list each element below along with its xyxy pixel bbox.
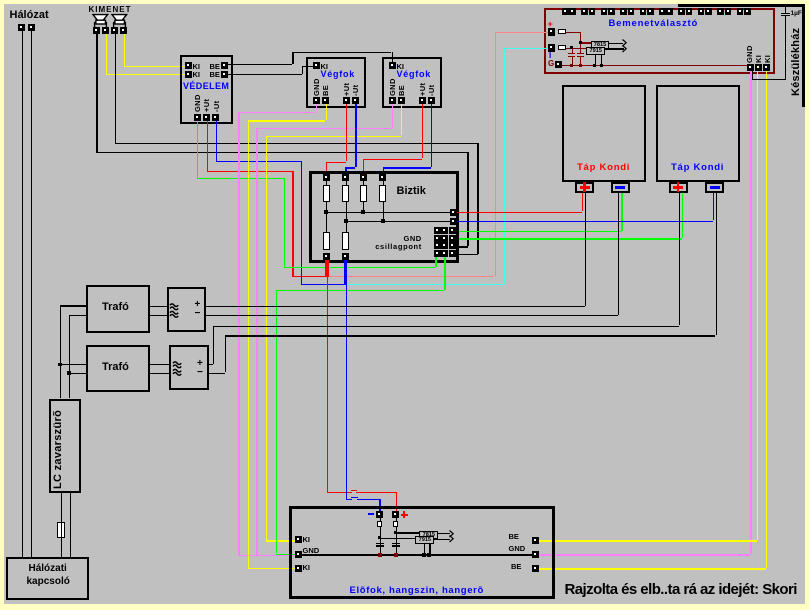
wire R+ to 7815 input maroon <box>566 32 581 33</box>
terminal VÉDELEM BE2 <box>221 71 228 78</box>
node Hálózat label <box>10 10 49 21</box>
wire branch trafo2 line1 <box>60 364 86 365</box>
wire Végfok2 +Ut red to fuse3 <box>422 104 423 158</box>
junction 7815 gnd preamp <box>422 553 426 557</box>
terminal Hálózat L <box>18 24 25 31</box>
junction bus+ col3 <box>361 210 365 214</box>
junction C+ gnd <box>394 553 398 557</box>
label GND vertical bottom right <box>746 45 754 63</box>
wire mains N down to switch <box>31 31 32 557</box>
terminal VÉDELEM KI2 <box>185 71 192 78</box>
label GND right <box>509 545 526 553</box>
noise filter LC zavarszürõ <box>49 399 81 493</box>
fuse mains <box>57 522 64 538</box>
wire 7815 output arrow <box>609 43 623 44</box>
wire rect2- to TK2- black <box>209 373 225 374</box>
terminal Biztik top 4 <box>379 174 386 181</box>
voltage regulator 7815 <box>591 41 610 49</box>
terminal SP1+ <box>102 27 109 34</box>
junction 7915 gnd <box>600 64 603 67</box>
amplifier module Végfok1 <box>306 57 366 108</box>
wire 7915 preamp output arrow <box>434 539 450 540</box>
wire rect2+ to TK2+ black <box>209 364 214 365</box>
wire Biztik + red to TK1+ <box>457 212 582 213</box>
terminal Elõfok BE1 right <box>532 537 539 544</box>
label Végfok2 <box>397 70 432 79</box>
wire Végfok2 BE yellow to Elõfok KI1 <box>401 104 402 135</box>
wire Végfok1 BE yellow to Elõfok KI2 <box>326 104 327 120</box>
capacitor bank Táp Kondi 2 <box>656 85 740 182</box>
wire 7915 output arrow <box>605 48 624 49</box>
voltage regulator 7815 preamp <box>419 531 438 538</box>
wire grid row4col2 green to Elõfok GND <box>444 257 445 290</box>
wire Végfok2 GND pink to Elõfok GND <box>392 104 393 128</box>
terminal Végfok2 -Ut <box>428 97 435 104</box>
wire + column <box>396 527 397 546</box>
wire trafo1 to rect1 <box>150 306 167 307</box>
transformer Trafó 1 <box>86 285 151 333</box>
capacitor 1uF chassis <box>785 7 786 13</box>
label + input <box>548 20 553 29</box>
wire Végfok2 -Ut blue to fuse4 <box>431 104 432 167</box>
label I input <box>549 52 551 60</box>
terminal SP2- <box>111 27 118 34</box>
wire Bemenet + from preamp salmon <box>495 32 548 33</box>
wire VÉDELEM BE1 to Végfok2 KI black <box>228 64 293 65</box>
wire trafo2 to rect2 <box>150 364 169 365</box>
label Végfok1 -Ut vertical <box>352 84 360 95</box>
fuse Elõfok + <box>396 518 397 521</box>
label G <box>548 60 554 68</box>
terminal input + <box>548 28 556 36</box>
junction 7915 gnd preamp <box>427 553 431 557</box>
mains switch Hálózati kapcsoló <box>6 557 89 601</box>
fuse box Biztik <box>309 171 459 263</box>
resistor R+ input <box>558 29 566 34</box>
wire regulator legs preamp <box>424 544 425 554</box>
junction 7815 in <box>394 531 397 534</box>
fuse F2 <box>346 181 347 185</box>
label - top <box>368 513 374 515</box>
label KI BE row1 <box>193 63 201 71</box>
wire VÉDELEM BE2 to Végfok1 KI black <box>228 74 302 75</box>
preamp Elõfok box <box>289 506 556 599</box>
wire - column <box>380 527 381 554</box>
wire SP1+ yellow to VÉDELEM KI row2 <box>106 34 107 74</box>
terminal Elõfok BE2 right <box>532 565 539 572</box>
junction C- gnd <box>378 553 382 557</box>
wire Bemenet KI2 yellow to Elõfok BE2 <box>766 71 767 569</box>
label GND csillagpont <box>404 235 422 243</box>
capacitor C2 input <box>577 53 584 54</box>
terminal Táp Kondi1 + <box>575 182 594 193</box>
wire LC to trafo line2 <box>69 315 70 399</box>
wire 7815 preamp output arrow <box>438 533 450 534</box>
fuse F1 <box>326 181 327 185</box>
terminal Bemenet KI2 <box>763 64 770 71</box>
terminal Végfok1 GND <box>313 97 320 104</box>
label Végfok2 KI <box>397 63 405 71</box>
wire +V down to Elõfok + <box>327 277 328 492</box>
wire col1 vertical <box>326 202 327 232</box>
terminal Elõfok KI1 left <box>295 536 302 543</box>
terminal Biztik top 3 <box>360 174 367 181</box>
terminal Biztik right + <box>450 209 457 216</box>
label Végfok2 -Ut vertical <box>428 84 436 95</box>
label Végfok1 +Ut vertical <box>343 83 351 96</box>
junction C2 gnd <box>579 64 582 67</box>
terminal VÉDELEM -Ut <box>212 114 219 121</box>
fuse F5 lower <box>323 232 330 250</box>
junction bus- col2 <box>344 219 348 223</box>
label BE2 right <box>511 563 521 571</box>
terminal Hálózat N <box>28 24 35 31</box>
label VÉDELEM <box>183 82 229 91</box>
wire TK2+ green to star ground <box>682 193 683 238</box>
terminal Elõfok KI2 left <box>295 565 302 572</box>
speaker SP2 <box>110 12 129 29</box>
rectifier bridge 2 <box>169 345 209 390</box>
wire grid row4col1 green to VÉDELEM GND <box>435 257 436 267</box>
wire rect1- to TK1- black <box>206 315 618 316</box>
junction trafo2 line1 <box>58 363 61 366</box>
fuse F3 <box>363 181 364 185</box>
label -Ut vertical <box>213 100 221 111</box>
terminal Végfok1 BE <box>322 97 329 104</box>
terminal Elõfok - <box>376 511 383 518</box>
capacitor C1 input <box>568 53 575 54</box>
capacitor bank Táp Kondi 1 <box>562 85 646 182</box>
wire GND rail preamp <box>300 554 532 555</box>
input selector Bemenetválasztó <box>544 8 775 75</box>
junction C1 gnd <box>570 64 573 67</box>
label KI vertical 2 <box>764 54 772 62</box>
wire SP2+ yellow to VÉDELEM KI row1 <box>124 34 125 66</box>
label BE1 right <box>509 533 519 541</box>
wire -V down to Elõfok - <box>346 285 347 499</box>
credit text <box>565 582 797 597</box>
wire branch trafo2 line2 <box>69 373 86 374</box>
terminal SP1- <box>93 27 100 34</box>
wire Bemenet GND pink to Elõfok GND right <box>750 71 751 555</box>
label Végfok2 +Ut vertical <box>419 83 427 96</box>
label KI1 <box>303 536 311 544</box>
terminal Biztik top 2 <box>342 174 349 181</box>
wire VÉDELEM -Ut blue to -V node <box>216 121 217 161</box>
fuse F4 <box>383 181 384 185</box>
wire Biztik - blue to TK2- <box>457 221 713 222</box>
wire col3 vertical <box>363 202 364 212</box>
label Végfok2 BE vertical <box>398 85 406 96</box>
terminal Végfok1 KI <box>313 62 320 69</box>
terminal Bemenet KI1 <box>755 64 762 71</box>
wire cap1 drop <box>572 48 573 53</box>
resistor R- input <box>558 45 566 50</box>
label Készülékház vertical <box>791 27 802 95</box>
wire LC to switch 1 <box>61 493 62 557</box>
terminal VÉDELEM KI1 <box>185 62 192 69</box>
label Végfok1 BE vertical <box>322 85 330 96</box>
label KI BE row2 <box>193 71 201 79</box>
junction trafo2 line2 <box>67 371 70 374</box>
fuse Elõfok - <box>380 518 381 521</box>
label KI vertical 1 <box>755 54 763 62</box>
terminal Végfok1 +Ut <box>343 97 350 104</box>
label Végfok1 <box>321 70 356 79</box>
terminal Elõfok + <box>392 511 399 518</box>
terminal VÉDELEM GND <box>194 114 201 121</box>
speaker SP1 <box>91 12 110 29</box>
terminal Táp Kondi1 - <box>611 182 630 193</box>
terminal Táp Kondi2 - <box>705 182 724 193</box>
terminal Végfok1 -Ut <box>352 97 359 104</box>
terminal Elõfok GND left <box>295 551 302 558</box>
label Végfok1 KI <box>321 63 329 71</box>
wire LC to switch 2 <box>70 493 71 557</box>
terminal input - <box>548 44 556 52</box>
terminal Biztik right - <box>450 218 457 225</box>
terminal VÉDELEM +Ut <box>203 114 210 121</box>
wire VÉDELEM GND green to star <box>197 121 198 178</box>
capacitor Elõfok C- <box>376 543 384 544</box>
node KIMENET label <box>89 6 132 14</box>
rectifier bridge 1 <box>167 287 207 332</box>
label +Ut vertical <box>203 98 211 111</box>
terminal SP2+ <box>120 27 127 34</box>
junction 7815 gnd <box>593 64 596 67</box>
transformer Trafó 2 <box>86 345 151 393</box>
chassis line Készülékház <box>678 4 805 7</box>
protection module VÉDELEM <box>180 55 233 124</box>
terminal strip top row <box>562 8 569 15</box>
wire G ground rail maroon <box>562 65 748 66</box>
terminal Elõfok GND right <box>532 551 539 558</box>
terminal Biztik bottom 1 <box>323 253 330 260</box>
wire chassis cap to GND terminal <box>752 79 786 80</box>
terminal Végfok2 GND <box>389 97 396 104</box>
wire Végfok1 GND pink to Elõfok GND <box>316 104 317 111</box>
wire bus +V rail <box>326 212 451 213</box>
amplifier module Végfok2 <box>382 57 442 108</box>
wire Végfok1 -Ut blue to fuse2 <box>355 104 356 167</box>
label Végfok1 GND vertical <box>313 78 321 96</box>
terminal VÉDELEM BE1 <box>221 62 228 69</box>
label KI2 <box>303 564 311 572</box>
capacitor Elõfok C+ <box>392 543 400 544</box>
terminal G <box>555 61 563 69</box>
wire bus -V rail <box>346 221 451 222</box>
junction cap1 top <box>570 46 573 49</box>
wire LC to trafo line1 <box>60 305 61 398</box>
label GND left <box>303 547 320 555</box>
junction 7915 in <box>378 536 381 539</box>
wire col4 vertical <box>383 202 384 221</box>
fuse F6 lower <box>342 232 349 250</box>
label 1uF <box>791 11 802 18</box>
label GND vertical <box>194 94 202 112</box>
junction 7815 input <box>579 41 582 44</box>
wire mains L down to switch <box>22 31 23 557</box>
label + top <box>401 514 408 516</box>
label Bemenetválasztó <box>609 19 699 29</box>
terminal Biztik top 1 <box>323 174 330 181</box>
wire VÉDELEM +Ut red to +V node <box>207 121 208 172</box>
wire regulator ground legs <box>595 55 596 65</box>
wire col2 vertical <box>346 202 347 232</box>
terminal Biztik bottom 2 <box>342 253 349 260</box>
terminal Végfok2 +Ut <box>419 97 426 104</box>
wire R- to 7915 input maroon <box>566 48 587 49</box>
wire SP1- black to star ground <box>96 34 97 152</box>
terminal Végfok2 BE <box>398 97 405 104</box>
node -V thick blue <box>344 260 347 285</box>
terminal Bemenet GND <box>747 64 754 71</box>
junction bus+ col1 <box>324 210 328 214</box>
voltage regulator 7915 preamp <box>415 536 434 544</box>
wire + to 7815 <box>396 532 420 533</box>
wire TK1- green to star ground <box>621 193 622 230</box>
node +V thick red <box>325 260 328 277</box>
terminal grid star ground 3x4 <box>434 227 441 234</box>
wire SP2- black to star ground <box>115 34 116 143</box>
wire - to 7915 <box>380 538 416 539</box>
wire Végfok1 +Ut red to fuse1 <box>346 104 347 161</box>
label Elõfok hangszin hangerõ <box>350 586 484 596</box>
label Biztik <box>397 186 426 197</box>
wire Bemenet - from preamp cyan <box>504 48 548 49</box>
wire rect1+ to TK1+ black <box>206 306 585 307</box>
voltage regulator 7915 <box>586 47 605 56</box>
terminal Táp Kondi2 + <box>669 182 688 193</box>
terminal Végfok2 KI <box>389 62 396 69</box>
junction bus- col4 <box>381 219 385 223</box>
label Végfok2 GND vertical <box>389 78 397 96</box>
wire Bemenet KI1 yellow to Elõfok BE1 <box>757 71 758 541</box>
